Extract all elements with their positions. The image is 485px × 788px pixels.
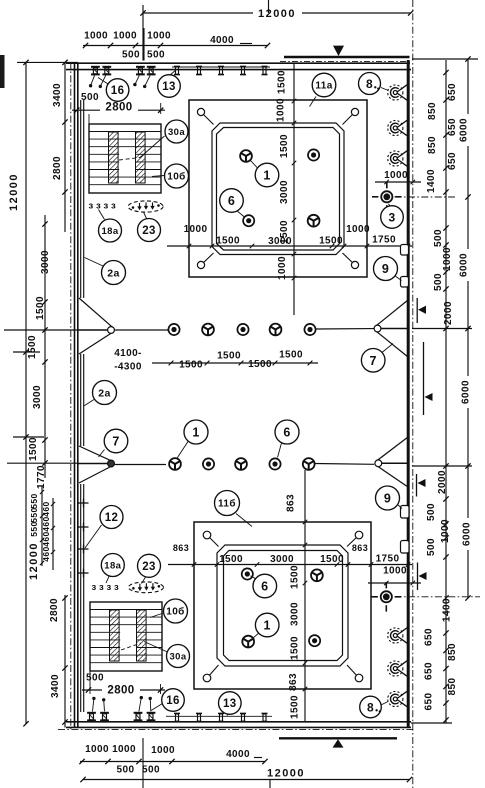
basin bottom horizontal dim line bbox=[168, 564, 412, 566]
label 30a top bbox=[140, 136, 165, 158]
svg-text:4000: 4000 bbox=[210, 35, 234, 46]
label 6 middle bbox=[278, 443, 282, 458]
svg-text:2800: 2800 bbox=[52, 156, 63, 180]
svg-text:500: 500 bbox=[142, 765, 160, 776]
dim bottom 12000 bbox=[83, 779, 410, 781]
svg-text:500: 500 bbox=[433, 229, 444, 247]
svg-text:1500: 1500 bbox=[290, 565, 301, 589]
filter top leader dashes bbox=[119, 158, 140, 161]
label 2a lower bbox=[84, 400, 94, 406]
item 23 oval bottom bbox=[129, 582, 164, 593]
svg-text:1000: 1000 bbox=[112, 744, 136, 755]
svg-text:6000: 6000 bbox=[459, 118, 470, 142]
label 1 bottom basin bbox=[253, 632, 261, 639]
label 1 middle bbox=[177, 442, 189, 460]
svg-text:13: 13 bbox=[162, 81, 176, 93]
flow markers right wall bbox=[416, 298, 418, 323]
svg-text:16: 16 bbox=[111, 85, 125, 97]
svg-text:3: 3 bbox=[388, 210, 395, 224]
row1 dim 4100-4300 and 1500s bbox=[152, 362, 318, 364]
svg-text:10б: 10б bbox=[166, 606, 185, 618]
dim left middle chain bbox=[44, 215, 46, 478]
svg-text:з: з bbox=[88, 201, 93, 212]
svg-text:3400: 3400 bbox=[50, 674, 61, 698]
svg-text:500: 500 bbox=[147, 50, 165, 61]
svg-text:1500: 1500 bbox=[290, 636, 301, 660]
svg-text:30a: 30a bbox=[168, 127, 185, 138]
label 16 top bbox=[98, 78, 108, 85]
svg-text:1500: 1500 bbox=[248, 359, 272, 370]
item 13 brackets top bbox=[172, 66, 270, 68]
dim left 550/460 chains bbox=[41, 486, 43, 566]
dim bottom 1000 row bbox=[80, 761, 265, 763]
item 12 wall crosses bbox=[78, 502, 89, 504]
svg-text:1000: 1000 bbox=[276, 98, 287, 122]
svg-text:1500: 1500 bbox=[279, 350, 303, 361]
basin top vertical dim chain bbox=[293, 64, 295, 315]
svg-text:3000: 3000 bbox=[290, 602, 301, 626]
svg-text:1: 1 bbox=[263, 169, 270, 183]
nozzles top (item 8) bbox=[388, 85, 403, 100]
svg-text:550: 550 bbox=[29, 521, 39, 536]
svg-text:з: з bbox=[99, 582, 104, 593]
dim filter bottom 2800 bbox=[82, 689, 165, 691]
row1 symbols bbox=[114, 329, 172, 331]
svg-text:1000: 1000 bbox=[84, 31, 108, 42]
dim top 1000 row bbox=[83, 45, 268, 47]
svg-text:1000: 1000 bbox=[346, 224, 370, 235]
svg-text:863: 863 bbox=[288, 673, 299, 691]
svg-text:1: 1 bbox=[264, 619, 271, 633]
svg-text:500: 500 bbox=[117, 765, 135, 776]
svg-text:3000: 3000 bbox=[268, 236, 292, 247]
svg-text:18a: 18a bbox=[104, 560, 121, 571]
label 13 bottom bbox=[227, 714, 229, 716]
label 7 right bbox=[382, 344, 393, 353]
svg-text:460: 460 bbox=[41, 531, 51, 546]
wall bottom axis bbox=[58, 729, 413, 731]
svg-text:1500: 1500 bbox=[279, 134, 290, 158]
svg-text:650: 650 bbox=[447, 118, 458, 136]
svg-text:1500: 1500 bbox=[35, 296, 46, 320]
overflow line top with water level mark bbox=[284, 56, 410, 59]
dim filter top 2800 bbox=[72, 109, 165, 111]
svg-text:460: 460 bbox=[41, 546, 51, 561]
svg-text:500: 500 bbox=[122, 50, 140, 61]
svg-text:3000: 3000 bbox=[32, 385, 43, 409]
svg-text:1400: 1400 bbox=[442, 598, 453, 622]
label 10b bottom bbox=[150, 613, 164, 618]
ext line top-left bbox=[17, 61, 78, 63]
svg-text:1770: 1770 bbox=[36, 465, 47, 489]
svg-text:460: 460 bbox=[41, 501, 51, 516]
dim right chain 650/850 top bbox=[445, 60, 447, 197]
svg-text:1500: 1500 bbox=[219, 554, 243, 565]
svg-text:23: 23 bbox=[142, 225, 156, 237]
svg-text:850: 850 bbox=[447, 678, 458, 696]
svg-text:8: 8 bbox=[367, 700, 374, 714]
svg-text:2800: 2800 bbox=[107, 685, 134, 697]
wall bottom bbox=[66, 721, 411, 723]
valve bottom dims bbox=[368, 582, 421, 584]
svg-text:2000: 2000 bbox=[437, 470, 448, 494]
basin bottom corner anchors bbox=[207, 535, 219, 547]
svg-text:460: 460 bbox=[41, 516, 51, 531]
basin top horizontal dim line bbox=[167, 245, 412, 247]
svg-text:1500: 1500 bbox=[28, 437, 39, 461]
svg-text:з: з bbox=[111, 201, 116, 212]
basin top corner anchors bbox=[201, 112, 214, 125]
svg-text:6000: 6000 bbox=[461, 380, 472, 404]
svg-text:863: 863 bbox=[352, 543, 368, 553]
label 1 top basin bbox=[251, 161, 259, 169]
svg-text:1000: 1000 bbox=[442, 247, 453, 271]
svg-text:1000: 1000 bbox=[85, 744, 109, 755]
label 30a bottom bbox=[144, 642, 168, 653]
svg-text:1500: 1500 bbox=[217, 351, 241, 362]
svg-text:2a: 2a bbox=[107, 267, 119, 279]
svg-text:-4300: -4300 bbox=[114, 362, 142, 373]
svg-text:23: 23 bbox=[142, 561, 156, 573]
svg-text:550: 550 bbox=[29, 507, 39, 522]
nozzles bottom (item 8) bbox=[388, 628, 403, 643]
svg-text:3000: 3000 bbox=[40, 250, 51, 274]
svg-text:11a: 11a bbox=[315, 81, 332, 92]
svg-text:6: 6 bbox=[261, 580, 268, 594]
svg-text:1000: 1000 bbox=[277, 256, 288, 280]
overflow line bottom with water level mark bbox=[279, 737, 397, 739]
svg-text:6: 6 bbox=[228, 194, 235, 208]
svg-text:3400: 3400 bbox=[52, 83, 63, 107]
svg-text:500: 500 bbox=[426, 538, 437, 556]
filter block bottom bbox=[90, 602, 162, 671]
svg-text:650: 650 bbox=[424, 662, 435, 680]
svg-text:1000: 1000 bbox=[384, 170, 408, 181]
svg-text:1750: 1750 bbox=[372, 235, 396, 246]
svg-text:650: 650 bbox=[447, 83, 458, 101]
svg-text:8: 8 bbox=[366, 77, 373, 91]
svg-text:18a: 18a bbox=[101, 226, 118, 237]
label 11a bbox=[310, 97, 317, 107]
svg-text:3000: 3000 bbox=[279, 180, 290, 204]
svg-text:12000: 12000 bbox=[267, 768, 305, 780]
item 23 oval top bbox=[128, 201, 163, 212]
wall left bbox=[74, 63, 76, 728]
item 16 posts bottom bbox=[87, 712, 96, 714]
svg-text:500: 500 bbox=[86, 673, 104, 684]
svg-text:1500: 1500 bbox=[319, 236, 343, 247]
svg-text:1000: 1000 bbox=[184, 224, 208, 235]
svg-text:850: 850 bbox=[427, 102, 438, 120]
label 9 top bbox=[395, 276, 402, 281]
ext lines right bbox=[412, 58, 478, 60]
item 13 brackets bottom bbox=[166, 715, 272, 717]
pipe item 2a segments bbox=[80, 100, 82, 298]
label 2a top bbox=[85, 258, 104, 267]
svg-text:9: 9 bbox=[384, 492, 391, 506]
label 10b top bbox=[152, 176, 164, 177]
svg-text:12000: 12000 bbox=[8, 173, 20, 211]
svg-text:2800: 2800 bbox=[105, 102, 132, 114]
item 16 posts top bbox=[91, 66, 100, 68]
svg-text:10б: 10б bbox=[167, 171, 186, 183]
label 9 bottom bbox=[398, 505, 403, 509]
svg-text:з: з bbox=[91, 582, 96, 593]
svg-text:1500: 1500 bbox=[27, 335, 38, 359]
label 12 bbox=[85, 525, 102, 548]
valve top dims bbox=[375, 181, 421, 183]
dim right chain 500/1000/500/2000 top bbox=[445, 197, 447, 329]
svg-text:850: 850 bbox=[447, 643, 458, 661]
label 6 bottom basin bbox=[251, 576, 257, 580]
wall top bbox=[66, 62, 410, 64]
svg-text:7: 7 bbox=[112, 435, 119, 449]
dim right chain 1400/650/850 bottom bbox=[445, 597, 447, 723]
scan specks left edge bbox=[0, 55, 5, 88]
svg-text:6000: 6000 bbox=[459, 253, 470, 277]
svg-text:500: 500 bbox=[426, 503, 437, 521]
basin bottom outer square bbox=[194, 522, 371, 689]
svg-text:з: з bbox=[106, 582, 111, 593]
label 18a top bbox=[99, 210, 105, 220]
svg-text:4000: 4000 bbox=[226, 749, 250, 760]
svg-text:11б: 11б bbox=[218, 498, 236, 510]
basin bottom symbols bbox=[242, 568, 253, 579]
svg-text:1500: 1500 bbox=[277, 70, 288, 94]
basin top outer square bbox=[189, 100, 367, 277]
svg-text:550: 550 bbox=[29, 493, 39, 508]
svg-text:2000: 2000 bbox=[443, 301, 454, 325]
dim top 12000 bbox=[143, 12, 253, 14]
dim left 12000 chain bbox=[25, 62, 27, 723]
svg-text:12000: 12000 bbox=[28, 542, 40, 580]
svg-text:2800: 2800 bbox=[49, 598, 60, 622]
svg-text:1500: 1500 bbox=[290, 695, 301, 719]
svg-text:1000: 1000 bbox=[147, 31, 171, 42]
svg-text:6000: 6000 bbox=[462, 522, 473, 546]
wall right axis bbox=[412, 0, 414, 788]
filter block top bbox=[89, 124, 161, 193]
svg-text:13: 13 bbox=[223, 698, 237, 710]
valve top (item 3) bbox=[381, 191, 392, 202]
svg-text:з: з bbox=[114, 582, 119, 593]
funnel left row1 bbox=[79, 298, 114, 329]
svg-text:1: 1 bbox=[192, 426, 199, 440]
label 3 bbox=[389, 204, 391, 206]
basin bottom inner wall bbox=[217, 545, 348, 666]
svg-text:1500: 1500 bbox=[179, 360, 203, 371]
svg-text:1750: 1750 bbox=[376, 554, 400, 565]
funnel left row2 bbox=[79, 446, 114, 462]
basin top symbols bbox=[240, 150, 252, 162]
svg-text:1500: 1500 bbox=[320, 554, 344, 565]
svg-text:1000: 1000 bbox=[113, 31, 137, 42]
svg-text:863: 863 bbox=[173, 543, 189, 553]
label 23 bottom bbox=[142, 577, 146, 584]
label 7 left bbox=[99, 450, 105, 458]
svg-text:4100-: 4100- bbox=[114, 348, 142, 359]
dim right outer 6000 chain bbox=[467, 59, 469, 598]
label 16 bottom bbox=[151, 704, 163, 711]
basin top inner wall bbox=[212, 123, 344, 255]
row2 symbols bbox=[114, 464, 166, 466]
wall recess boxes item 9 bottom bbox=[401, 506, 410, 519]
svg-text:650: 650 bbox=[447, 152, 458, 170]
ext lines left rows bbox=[4, 329, 78, 331]
filter bottom leader dashes bbox=[121, 643, 141, 650]
svg-text:9: 9 bbox=[382, 262, 389, 276]
label 6 top basin bbox=[236, 210, 245, 218]
svg-text:1000: 1000 bbox=[383, 566, 407, 577]
dim right chain middle bbox=[445, 329, 447, 467]
label 18a bottom bbox=[106, 576, 109, 583]
valve bottom bbox=[381, 591, 392, 602]
svg-text:1000: 1000 bbox=[440, 519, 451, 543]
wall left axis bbox=[70, 62, 72, 729]
svg-text:850: 850 bbox=[427, 136, 438, 154]
basin bottom vertical dim chain bbox=[304, 470, 306, 722]
label 23 top bbox=[144, 212, 147, 219]
label 8 top bbox=[381, 88, 389, 91]
svg-text:16: 16 bbox=[166, 695, 180, 707]
svg-text:500: 500 bbox=[433, 273, 444, 291]
funnel right row1 bbox=[375, 300, 409, 327]
dim left 3400/2800 top bbox=[64, 62, 66, 232]
svg-text:650: 650 bbox=[424, 693, 435, 711]
svg-text:12: 12 bbox=[105, 512, 119, 524]
svg-text:7: 7 bbox=[370, 354, 377, 368]
svg-text:з: з bbox=[103, 201, 108, 212]
label 8 bottom bbox=[381, 702, 388, 706]
svg-text:3000: 3000 bbox=[270, 554, 294, 565]
svg-text:650: 650 bbox=[424, 628, 435, 646]
svg-text:12000: 12000 bbox=[258, 8, 296, 20]
svg-text:1000: 1000 bbox=[151, 745, 175, 756]
svg-text:6: 6 bbox=[283, 426, 290, 440]
dim right chain 2000/500/1000/500 bottom bbox=[445, 466, 447, 598]
svg-text:1400: 1400 bbox=[426, 169, 437, 193]
svg-text:2a: 2a bbox=[98, 387, 110, 399]
label 11b bbox=[236, 514, 252, 527]
svg-text:863: 863 bbox=[286, 494, 297, 512]
svg-text:1500: 1500 bbox=[216, 236, 240, 247]
wall right bbox=[407, 60, 410, 727]
svg-text:30a: 30a bbox=[169, 651, 186, 662]
label 13 top bbox=[170, 70, 176, 75]
dim left 3400/2800 bottom bbox=[64, 595, 66, 728]
funnel right row2 bbox=[375, 437, 408, 462]
wall recess boxes item 9 top bbox=[401, 245, 409, 256]
